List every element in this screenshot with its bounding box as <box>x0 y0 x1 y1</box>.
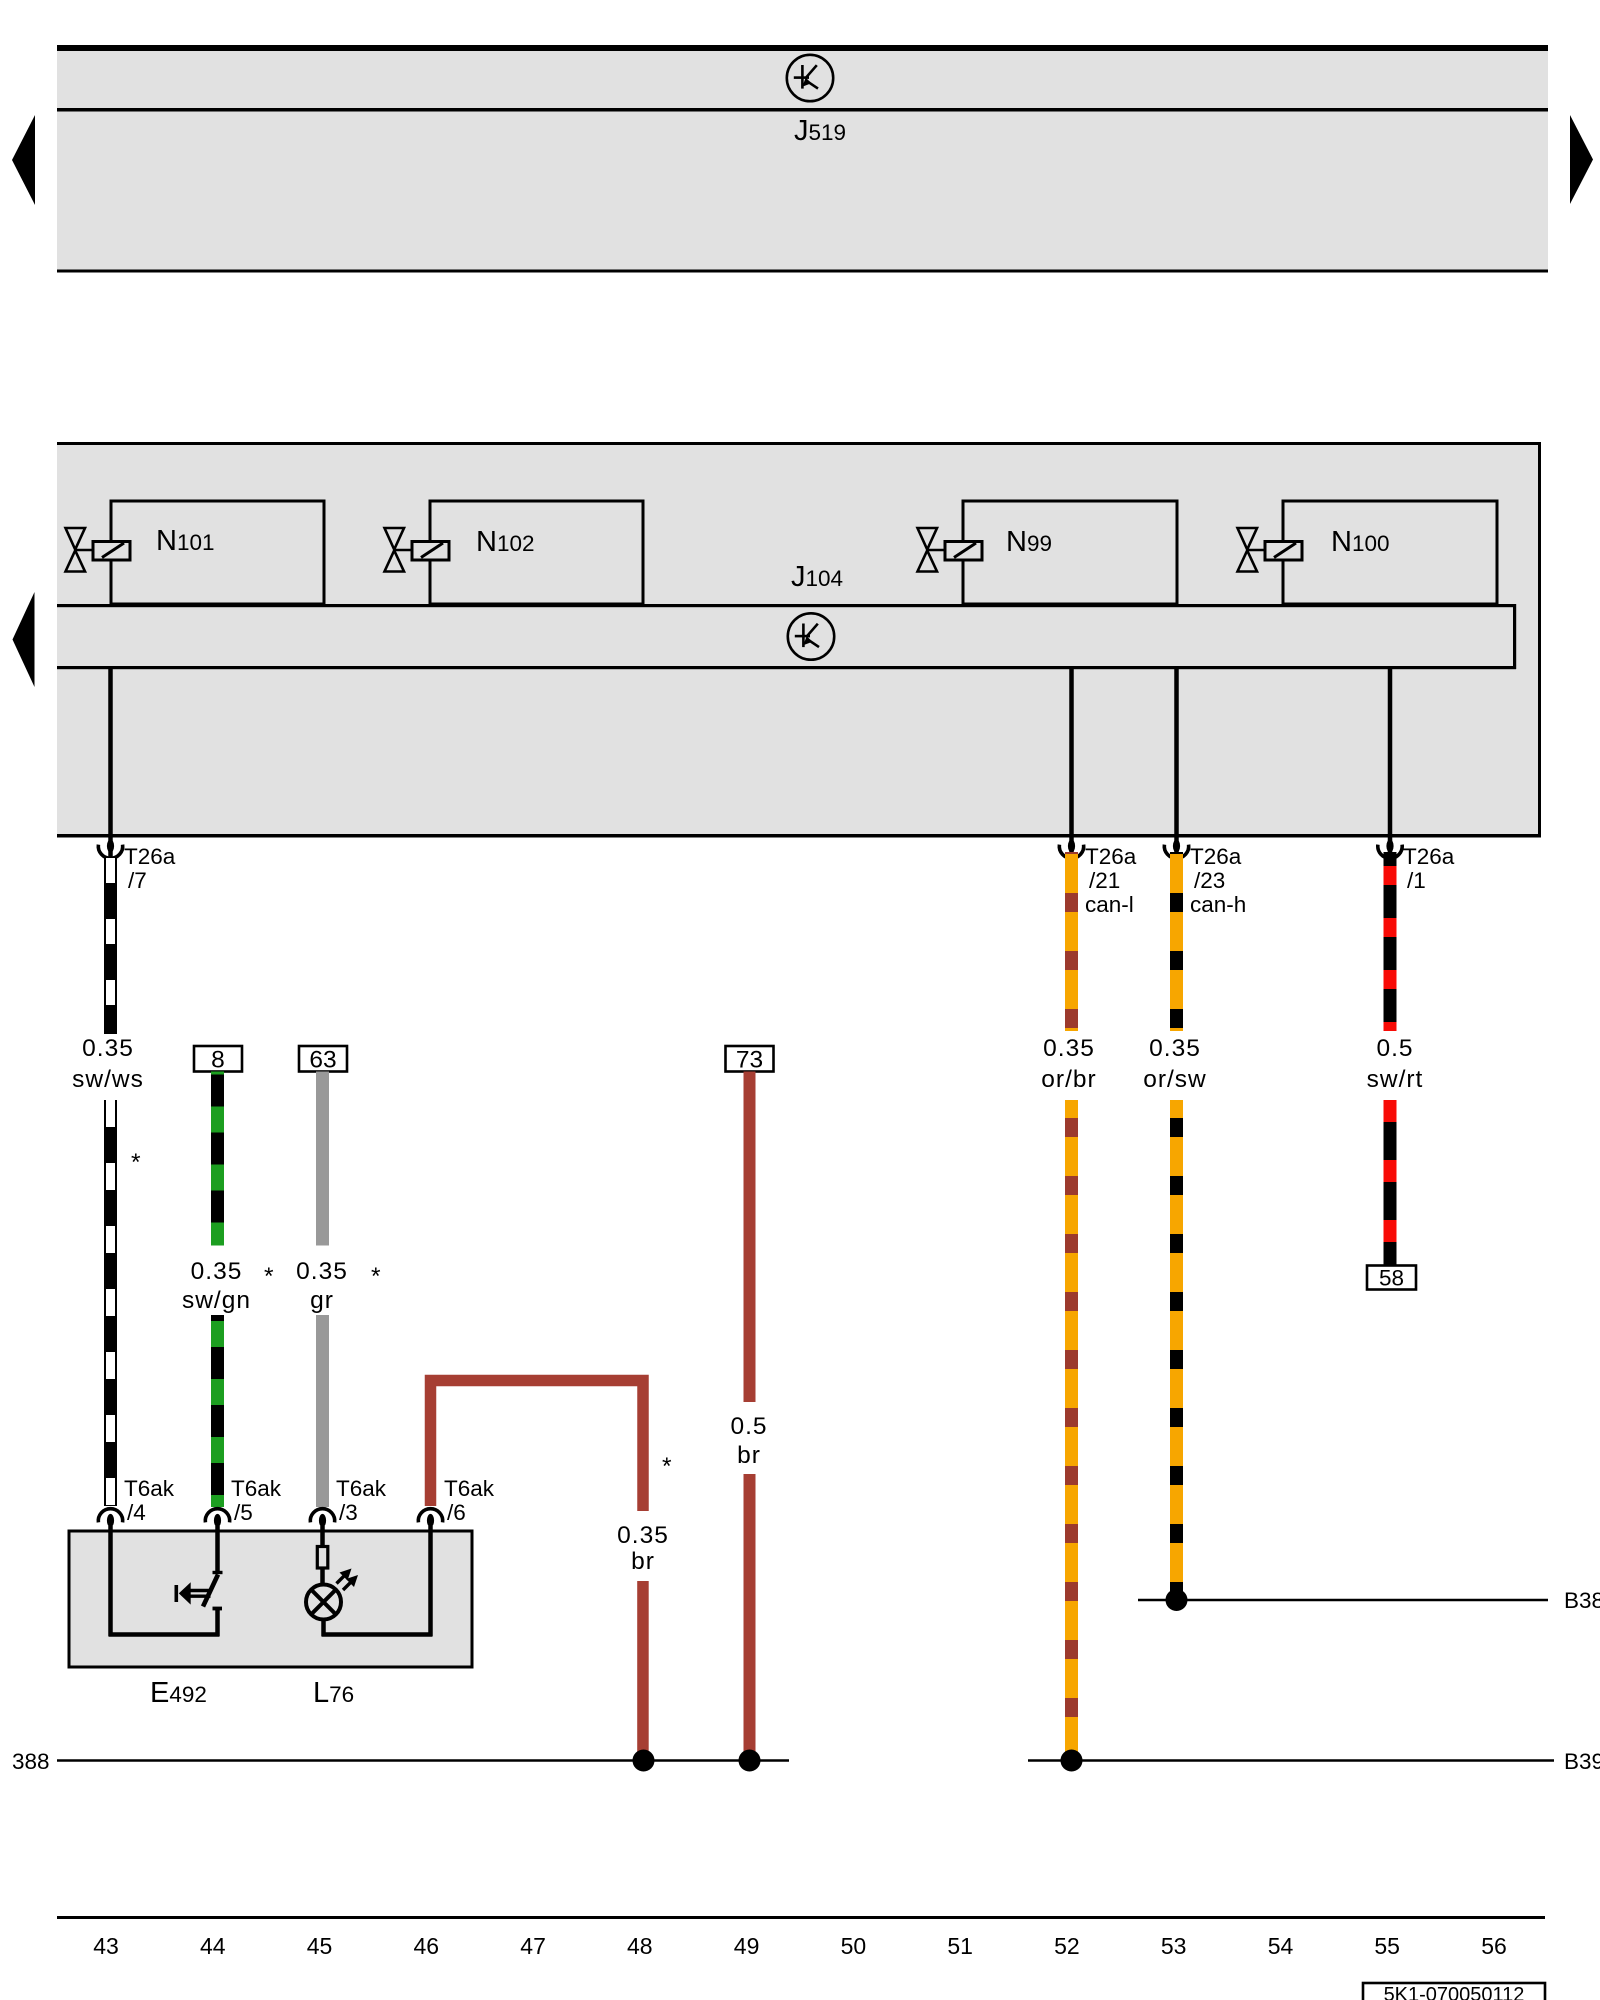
svg-text:T6ak: T6ak <box>336 1476 387 1501</box>
switch E492 (push-button contact) <box>176 1573 222 1637</box>
column ruler line <box>57 1916 1545 1919</box>
svg-text:8: 8 <box>211 1047 225 1074</box>
wire 0.35 or/sw segment 1 (can-h) <box>1170 852 1183 1031</box>
ground line 388 <box>57 1759 789 1762</box>
svg-text:*: * <box>662 1453 672 1480</box>
svg-text:T6ak: T6ak <box>124 1476 175 1501</box>
connector T6ak/6 <box>418 1476 494 1527</box>
bus connection symbol (J104) <box>788 613 834 659</box>
wire 0.5 sw/rt segment 1 <box>1384 852 1397 1031</box>
valve symbol N101 <box>66 528 94 572</box>
wire 0.5 br segment 1 <box>744 1072 756 1403</box>
svg-text:/1: /1 <box>1407 868 1426 893</box>
solenoid coil N100 <box>1265 542 1302 561</box>
page-link arrow left (top) <box>12 115 35 205</box>
svg-text:0.35: 0.35 <box>617 1522 669 1549</box>
svg-text:N99: N99 <box>1006 526 1052 558</box>
svg-text:T26a: T26a <box>124 844 176 869</box>
svg-text:0.35: 0.35 <box>191 1258 243 1285</box>
wire 0.35 sw/gn segment 2 <box>211 1315 224 1507</box>
control unit J519 box <box>57 45 1548 273</box>
wire E492 bottom link <box>109 1632 220 1637</box>
svg-text:0.35: 0.35 <box>1043 1035 1095 1062</box>
svg-text:388: 388 <box>12 1749 50 1774</box>
terminal box 58 <box>1367 1266 1416 1291</box>
svg-text:J519: J519 <box>794 115 846 147</box>
valve symbol N100 <box>1238 528 1266 572</box>
connector T6ak/5 <box>205 1476 281 1527</box>
svg-text:45: 45 <box>307 1933 333 1959</box>
svg-text:73: 73 <box>736 1047 763 1074</box>
svg-text:0.35: 0.35 <box>82 1035 134 1062</box>
connector T6ak/3 <box>310 1476 386 1527</box>
switch/lamp unit box (E492 / L76) <box>69 1531 472 1667</box>
page-link arrow left (J104 band) <box>13 592 35 687</box>
svg-text:55: 55 <box>1374 1933 1400 1959</box>
wire 0.35 sw/ws segment 2 <box>104 1100 117 1506</box>
svg-text:58: 58 <box>1379 1266 1404 1291</box>
svg-text:T6ak: T6ak <box>231 1476 282 1501</box>
svg-text:*: * <box>264 1263 274 1290</box>
svg-text:br: br <box>631 1548 655 1575</box>
svg-text:49: 49 <box>734 1933 760 1959</box>
terminal box 63 <box>299 1046 347 1074</box>
svg-text:/5: /5 <box>234 1500 253 1525</box>
relay N100 box <box>1283 501 1497 604</box>
svg-text:/4: /4 <box>127 1500 146 1525</box>
svg-text:/23: /23 <box>1194 868 1225 893</box>
wire inside J104 to pin T26a/21 <box>1069 669 1074 858</box>
svg-text:T6ak: T6ak <box>444 1476 495 1501</box>
svg-text:63: 63 <box>309 1047 336 1074</box>
solenoid coil N99 <box>945 542 982 561</box>
svg-text:/3: /3 <box>339 1500 358 1525</box>
wire inside J104 to pin T26a/1 <box>1388 669 1393 858</box>
svg-text:52: 52 <box>1054 1933 1080 1959</box>
terminal box 73 <box>726 1046 774 1074</box>
wire 0.5 br segment 2 <box>744 1474 756 1755</box>
relay N102 box <box>430 501 643 604</box>
wire 0.35 sw/ws segment 1 <box>104 858 117 1034</box>
svg-text:gr: gr <box>310 1287 334 1314</box>
svg-text:46: 46 <box>414 1933 440 1959</box>
lamp L76 (illumination bulb) <box>306 1569 358 1620</box>
diagram number plate <box>1363 1983 1545 2000</box>
wire 0.35 sw/gn segment 1 <box>211 1072 224 1246</box>
column numbers 43-56 <box>93 1933 1507 1959</box>
valve symbol N102 <box>385 528 413 572</box>
svg-text:*: * <box>131 1149 141 1176</box>
connector T26a/21 <box>1059 839 1136 917</box>
wire 0.5 sw/rt segment 2 <box>1384 1100 1397 1266</box>
wire 0.35 br segment 2 <box>637 1581 649 1755</box>
svg-text:or/sw: or/sw <box>1143 1066 1207 1093</box>
solenoid coil N101 <box>93 542 130 561</box>
svg-text:br: br <box>737 1442 761 1469</box>
svg-text:5K1-070050112: 5K1-070050112 <box>1384 1984 1525 2000</box>
wire E492 pin /4 leg <box>108 1526 113 1636</box>
svg-text:E492: E492 <box>150 1677 207 1709</box>
node line B390 <box>1028 1759 1554 1762</box>
junction dot (0.5 br on 388) <box>739 1750 761 1772</box>
connector T26a/23 <box>1164 839 1246 917</box>
svg-text:B390: B390 <box>1564 1749 1600 1774</box>
svg-text:51: 51 <box>947 1933 973 1959</box>
svg-text:/7: /7 <box>128 868 147 893</box>
svg-text:T26a: T26a <box>1403 844 1455 869</box>
svg-text:56: 56 <box>1481 1933 1507 1959</box>
wire 0.35 or/br segment 2 <box>1065 1100 1078 1754</box>
wire L76 pin /3 leg <box>320 1526 325 1547</box>
svg-text:sw/gn: sw/gn <box>182 1287 251 1314</box>
terminal box 8 <box>194 1046 242 1074</box>
wire L76 pin /6 leg <box>428 1526 433 1636</box>
svg-text:44: 44 <box>200 1933 226 1959</box>
J104 internal bus band <box>57 604 1516 669</box>
junction dot (or/sw on B383) <box>1166 1589 1188 1611</box>
svg-text:47: 47 <box>520 1933 546 1959</box>
wire resistor to lamp <box>320 1568 325 1585</box>
page-link arrow right (top) <box>1570 115 1593 204</box>
svg-text:/21: /21 <box>1089 868 1120 893</box>
solenoid coil N102 <box>412 542 449 561</box>
wire 0.35 gr segment 1 <box>316 1072 329 1246</box>
wire L76 bottom link <box>322 1632 433 1637</box>
svg-text:L76: L76 <box>313 1677 354 1709</box>
svg-text:can-h: can-h <box>1190 892 1246 917</box>
svg-text:54: 54 <box>1268 1933 1294 1959</box>
resistor (L76 series) <box>317 1547 328 1569</box>
wire 0.35 gr segment 2 <box>316 1315 329 1507</box>
wire 0.35 or/sw segment 2 <box>1170 1100 1183 1596</box>
svg-text:50: 50 <box>841 1933 867 1959</box>
wire E492 pin /5 leg <box>215 1526 220 1572</box>
relay carrier J104 box <box>57 442 1541 838</box>
relay N101 box <box>111 501 324 604</box>
svg-text:N102: N102 <box>476 526 535 558</box>
bus connection symbol (J519) <box>787 55 833 101</box>
wire inside J104 to pin T26a/23 <box>1174 669 1179 858</box>
relay N99 box <box>963 501 1177 604</box>
node line B383 <box>1138 1599 1548 1602</box>
svg-text:*: * <box>371 1263 381 1290</box>
svg-text:0.35: 0.35 <box>1149 1035 1201 1062</box>
wire inside J104 from N101 to pin T26a/7 <box>108 669 113 858</box>
svg-text:J104: J104 <box>791 561 843 593</box>
svg-text:T26a: T26a <box>1190 844 1242 869</box>
svg-text:/6: /6 <box>447 1500 466 1525</box>
svg-text:N100: N100 <box>1331 526 1390 558</box>
svg-text:0.35: 0.35 <box>296 1258 348 1285</box>
connector T26a/1 <box>1378 839 1455 893</box>
svg-text:0.5: 0.5 <box>1376 1035 1413 1062</box>
junction dot (or/br on B390) <box>1061 1750 1083 1772</box>
wire 0.35 br L-shape to T6ak/6 <box>431 1381 644 1512</box>
svg-text:0.5: 0.5 <box>730 1413 767 1440</box>
svg-text:48: 48 <box>627 1933 653 1959</box>
svg-text:43: 43 <box>93 1933 119 1959</box>
valve symbol N99 <box>918 528 946 572</box>
wire lamp bottom <box>321 1620 326 1637</box>
svg-text:T26a: T26a <box>1085 844 1137 869</box>
junction dot (0.35 br on 388) <box>633 1750 655 1772</box>
svg-text:B383: B383 <box>1564 1588 1600 1613</box>
svg-text:N101: N101 <box>156 525 215 557</box>
svg-text:can-l: can-l <box>1085 892 1134 917</box>
connector T26a/7 <box>98 839 175 893</box>
svg-text:sw/rt: sw/rt <box>1367 1066 1424 1093</box>
svg-text:or/br: or/br <box>1041 1066 1096 1093</box>
wire 0.35 or/br segment 1 (can-l) <box>1065 852 1078 1031</box>
svg-text:sw/ws: sw/ws <box>72 1066 144 1093</box>
connector T6ak/4 <box>98 1476 174 1527</box>
svg-text:53: 53 <box>1161 1933 1187 1959</box>
